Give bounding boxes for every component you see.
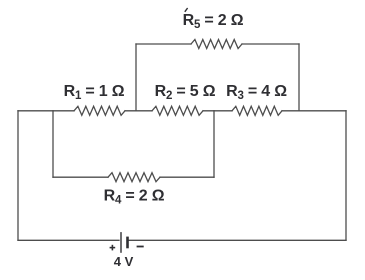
svg-text:R1 = 1 Ω: R1 = 1 Ω [64,83,125,102]
wire right outer vertical [345,111,347,241]
wire R5 branch left vertical [135,44,137,111]
wire R4 branch bottom left [53,176,108,178]
wire R5 branch top right [242,43,299,45]
wire middle left segment [18,110,74,112]
svg-text:R5 = 2 Ω: R5 = 2 Ω [183,12,244,31]
battery plus sign [110,245,116,251]
accent mark over R5 label [185,8,188,12]
battery minus sign [137,246,144,248]
resistor R3 [232,106,282,115]
svg-text:R2 = 5 Ω: R2 = 5 Ω [155,83,216,102]
wire R4 branch right vertical [213,111,215,177]
resistor R1 [74,106,125,115]
resistor R4 [108,173,160,182]
wire R5 branch right vertical [298,44,300,111]
wire middle between R1 and R2 [125,110,152,112]
wire middle between R2 and R3 [203,110,232,112]
wire bottom left to battery [18,239,119,241]
svg-text:R4 = 2 Ω: R4 = 2 Ω [104,188,165,207]
wire bottom battery to right [129,239,346,241]
svg-text:4 V: 4 V [114,254,134,269]
battery V1 positive plate [120,232,122,253]
battery V1 negative plate [126,237,129,249]
wire left outer vertical [17,111,19,241]
resistor R2 [152,106,203,115]
wire R5 branch top left [136,43,191,45]
wire middle right segment [282,110,346,112]
svg-text:R3 = 4 Ω: R3 = 4 Ω [226,83,287,102]
resistor R5 [191,40,242,49]
wire R4 branch left vertical [52,111,54,177]
wire R4 branch bottom right [160,176,214,178]
